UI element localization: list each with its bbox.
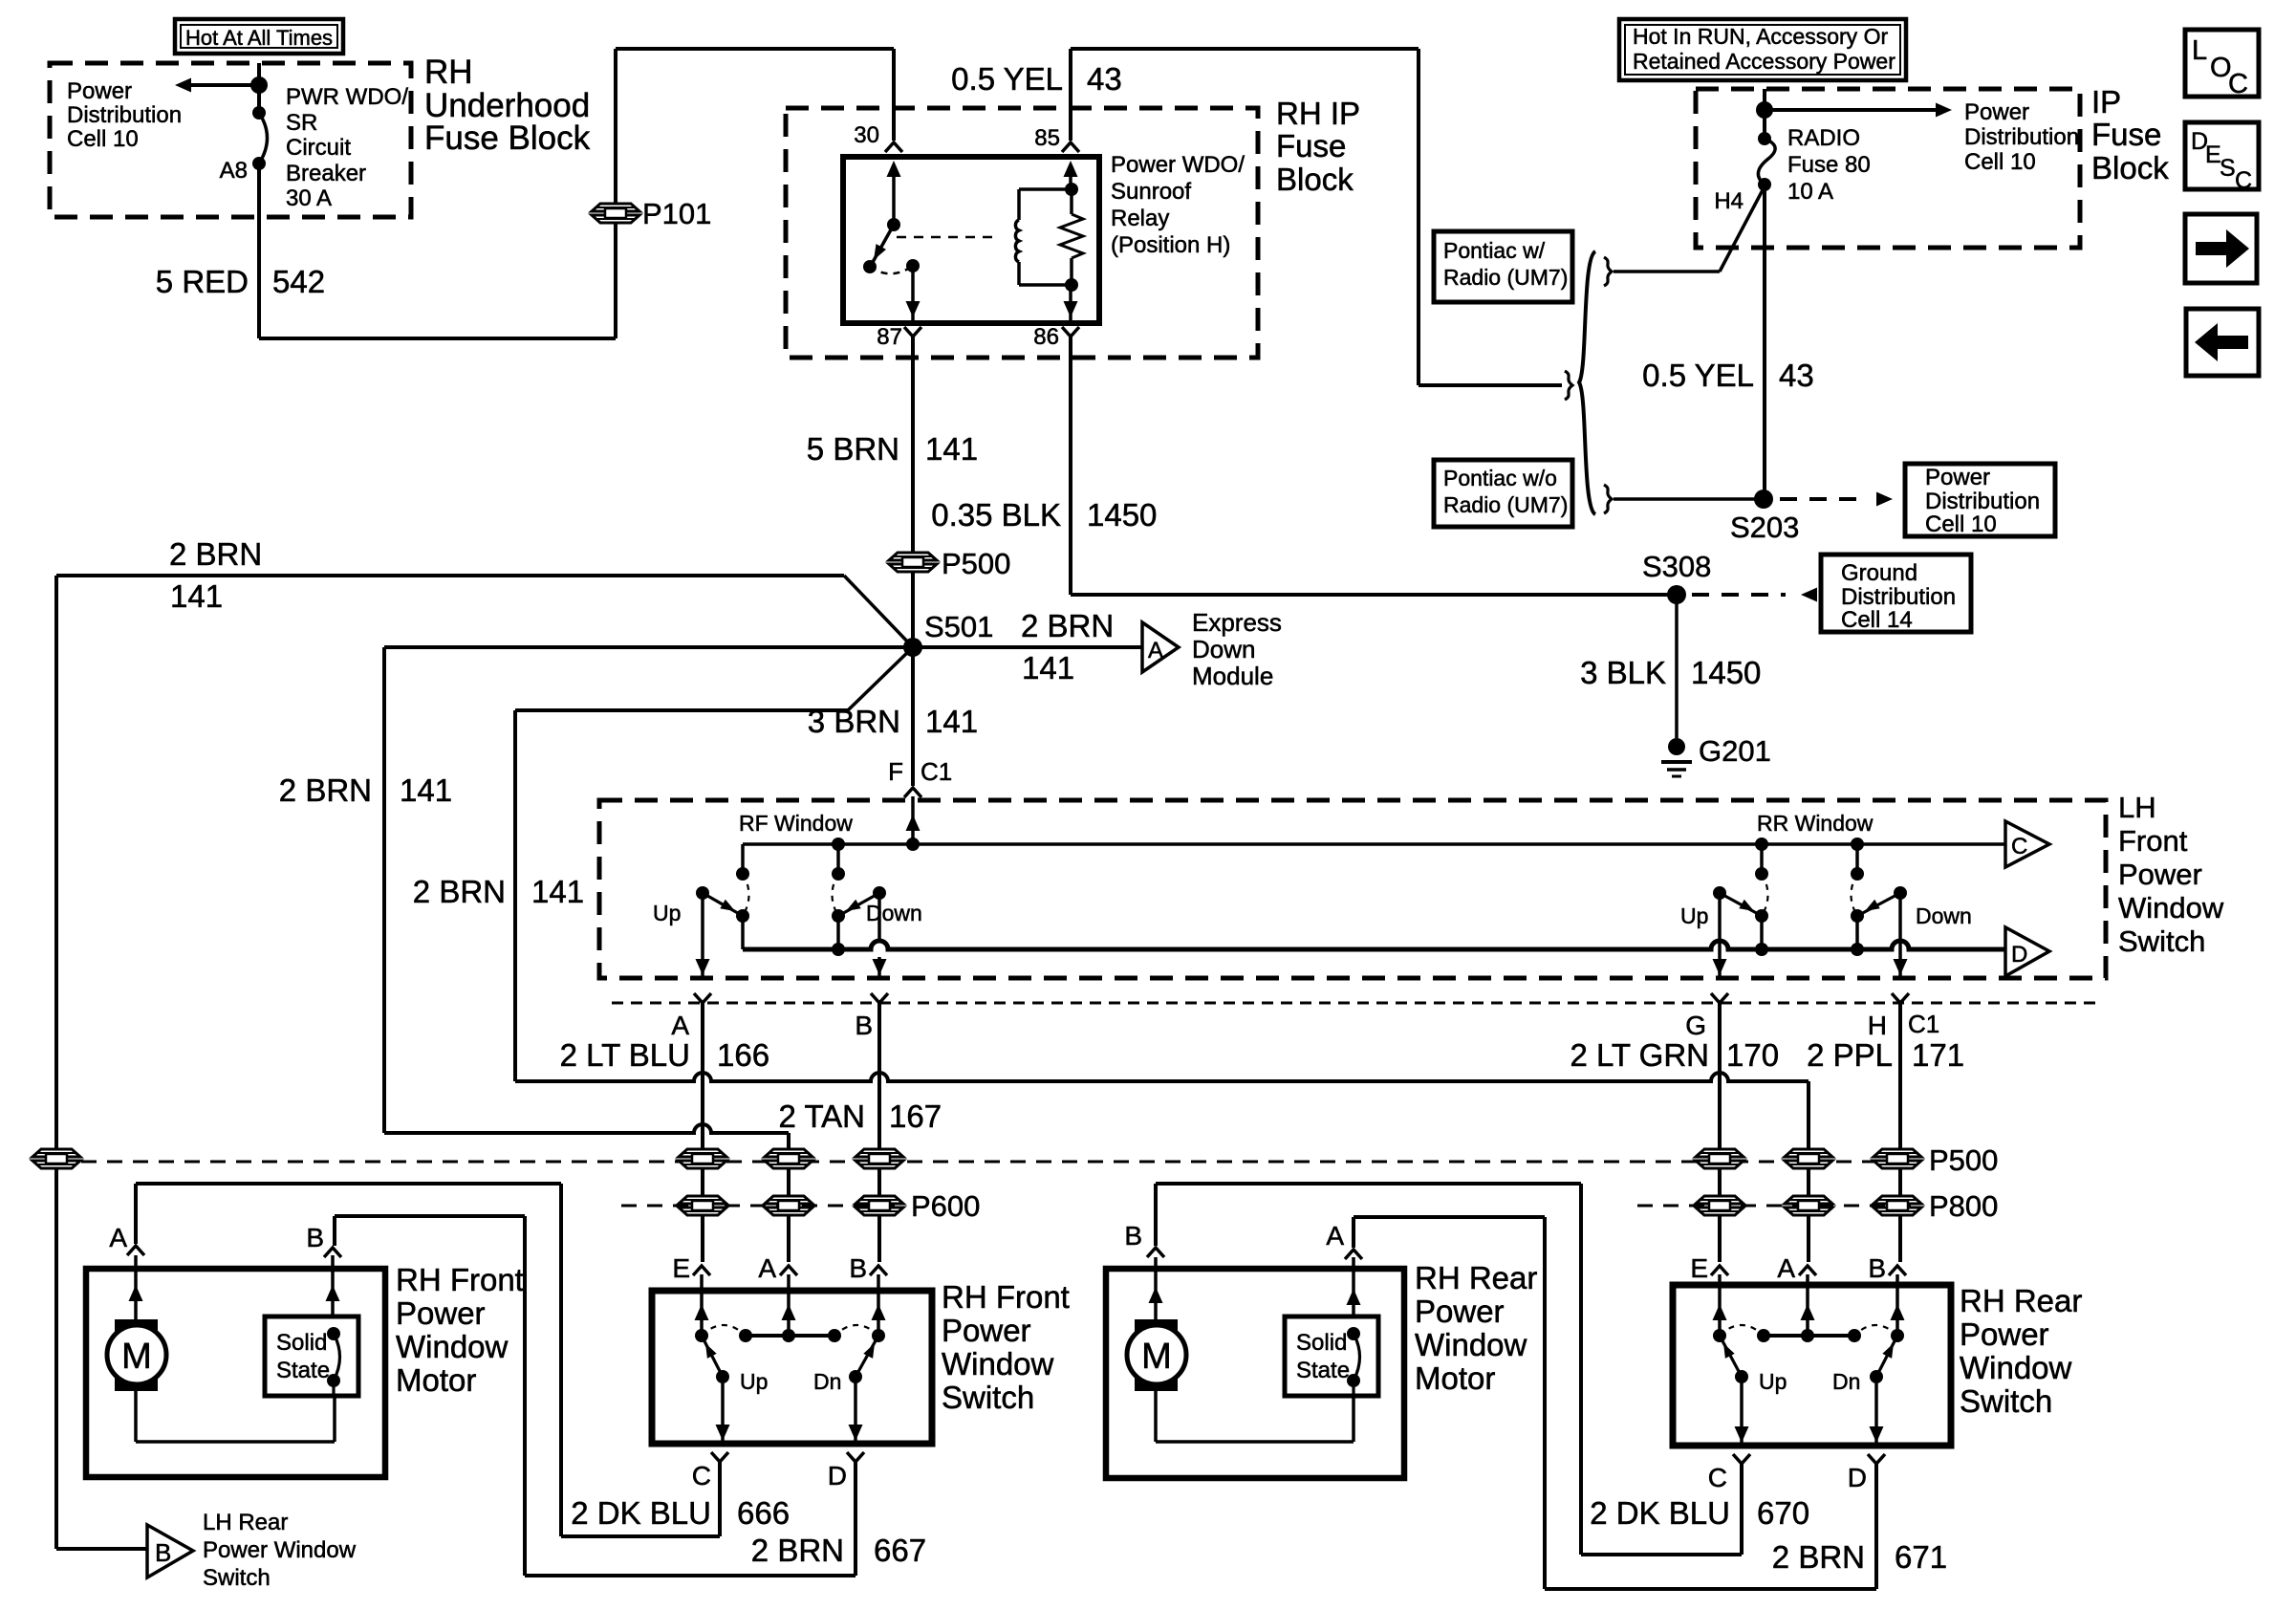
label: 2 BRN (671) — [1772, 1539, 1865, 1575]
svg-text:1450: 1450 — [1087, 497, 1157, 533]
connector P500 (rear A col) — [1785, 1149, 1832, 1168]
label: Down (RF) — [866, 901, 922, 925]
rear switch: E contact — [1713, 1329, 1726, 1342]
svg-text:LH: LH — [2118, 791, 2156, 824]
wire: 2 LT BLU 166 (pin A to front switch E) — [701, 1003, 704, 1262]
label: 167 — [889, 1099, 942, 1134]
label: Power WDO/Sunroof Relay (Position H) — [1111, 152, 1245, 258]
wire: 5 RED 542 — [259, 163, 616, 338]
label: RADIO Fuse 80 10 A — [1787, 125, 1871, 205]
svg-text:P800: P800 — [1929, 1189, 1998, 1223]
svg-text:Cell 10: Cell 10 — [1964, 149, 2036, 175]
connector P800 (rear B col) — [1874, 1196, 1921, 1215]
arrow: to Power Distribution Cell 10 — [175, 78, 259, 93]
svg-text:M: M — [1141, 1337, 1172, 1377]
RH Rear Power Window Motor box — [1106, 1269, 1404, 1478]
svg-text:Power Window: Power Window — [203, 1537, 357, 1563]
front switch: Dn arm — [849, 1336, 878, 1383]
svg-text:RH IP: RH IP — [1276, 96, 1360, 131]
wire: C1 F entry into switch — [906, 796, 921, 851]
label: 141 (3 BRN) — [925, 704, 978, 739]
svg-text:A: A — [671, 1011, 689, 1040]
svg-text:Switch: Switch — [942, 1380, 1034, 1415]
relay switched output to pin 87 — [906, 259, 921, 323]
svg-text:B: B — [306, 1223, 324, 1252]
dashed throw: RR up — [1762, 874, 1768, 916]
svg-text:2 BRN: 2 BRN — [751, 1533, 844, 1568]
splice S501 — [903, 610, 993, 657]
rear switch: Up arm — [1720, 1336, 1748, 1383]
svg-text:10 A: 10 A — [1787, 179, 1833, 205]
pin A (front motor) — [109, 1223, 144, 1255]
svg-text:670: 670 — [1757, 1495, 1809, 1531]
svg-text:G: G — [1685, 1011, 1706, 1040]
relay actuation dashed link — [897, 236, 998, 239]
svg-text:43: 43 — [1779, 358, 1814, 393]
front switch: B contact — [872, 1329, 885, 1342]
svg-text:S: S — [2220, 155, 2236, 182]
pin 85 — [1034, 125, 1079, 152]
connector P500 (front B col) — [856, 1149, 903, 1168]
svg-text:C: C — [692, 1461, 711, 1490]
svg-text:Power: Power — [942, 1313, 1031, 1348]
pin E (front switch) — [672, 1253, 710, 1283]
svg-text:Hot At All Times: Hot At All Times — [185, 26, 333, 50]
text: Power Distribution Cell 10 (IP) — [1964, 99, 2079, 175]
option box: Pontiac w/ Radio (UM7) — [1434, 231, 1572, 302]
pin A (rear switch) — [1777, 1253, 1816, 1283]
label: RH Rear Power Window Switch — [1960, 1283, 2082, 1419]
svg-text:0.35 BLK: 0.35 BLK — [931, 497, 1061, 533]
svg-text:Switch: Switch — [2118, 925, 2205, 958]
wire: RF Down output to pin B — [873, 893, 887, 978]
svg-text:2 DK BLU: 2 DK BLU — [1590, 1495, 1730, 1531]
label: 43 — [1087, 61, 1122, 97]
svg-text:141: 141 — [1022, 650, 1074, 685]
svg-text:86: 86 — [1033, 324, 1059, 350]
wire: 2 PPL 171 (pin H down) — [1898, 1003, 1902, 1262]
svg-text:Fuse: Fuse — [2091, 117, 2161, 152]
dashed arrow: S308 to Ground Distribution Cell 14 — [1692, 588, 1817, 602]
wire: option split feed — [1419, 49, 1562, 385]
relay switch arm — [863, 225, 894, 273]
pin C1 (bottom) — [1908, 1010, 1939, 1038]
power source label: Hot At All Times — [175, 19, 343, 54]
dashed arrow: S203 to Power Distribution Cell 10 — [1780, 492, 1893, 507]
option box: Pontiac w/o Radio (UM7) — [1434, 460, 1572, 527]
wire: 0.35 BLK 1450 (relay 86 to S308) — [1071, 337, 1677, 595]
relay switch dashed throw — [870, 266, 913, 273]
rear switch: contact bar — [1757, 1329, 1861, 1342]
label: 2 BRN (667) — [751, 1533, 844, 1568]
label: 141 (middle) — [400, 772, 452, 808]
svg-text:Up: Up — [1759, 1369, 1787, 1394]
svg-text:Window: Window — [396, 1329, 509, 1364]
node: junction above RADIO fuse — [1756, 101, 1773, 119]
front switch: B input arrow — [872, 1274, 886, 1336]
legend box: DESC — [2185, 122, 2259, 194]
front switch: E input arrow — [695, 1274, 709, 1336]
svg-text:D: D — [1848, 1463, 1867, 1492]
relay coil output to pin 86 — [1064, 278, 1079, 323]
svg-text:Power: Power — [1960, 1316, 2049, 1352]
wire: 0.5 YEL 43 (relay 85 feed) — [1071, 49, 1419, 141]
label: RH Front Power Window Motor — [396, 1262, 524, 1398]
rear switch: E input arrow — [1713, 1274, 1727, 1336]
svg-text:C: C — [2228, 69, 2248, 99]
switch: RF Down — [832, 886, 886, 949]
front switch: dashed throw E — [702, 1325, 746, 1336]
switch: RF Up — [696, 886, 749, 949]
pin 87 — [877, 324, 921, 350]
svg-text:171: 171 — [1912, 1037, 1964, 1073]
svg-text:87: 87 — [877, 324, 902, 350]
text: Power Distribution Cell 10 (underhood) — [67, 78, 182, 152]
pin B (front motor) — [306, 1223, 341, 1257]
svg-text:Express: Express — [1192, 608, 1282, 637]
node: RF down fixed stub — [832, 838, 845, 874]
label: 2 PPL — [1807, 1037, 1893, 1073]
label: 166 — [717, 1037, 769, 1073]
pin A (rear motor) — [1326, 1221, 1362, 1259]
svg-text:Window: Window — [2118, 891, 2224, 925]
connector P600 (front B col) — [856, 1196, 903, 1215]
label: 0.5 YEL (lower) — [1642, 358, 1754, 393]
svg-text:141: 141 — [531, 874, 584, 909]
svg-text:0.5 YEL: 0.5 YEL — [1642, 358, 1754, 393]
wire: 2 BRN 667 (front D to motor B) — [335, 1216, 856, 1576]
box: Ground Distribution Cell 14 — [1821, 555, 1971, 633]
label: 2 DK BLU (666) — [571, 1495, 711, 1531]
svg-text:S203: S203 — [1730, 511, 1799, 544]
svg-text:Up: Up — [653, 901, 681, 925]
front motor: solid state contact arc — [327, 1327, 340, 1387]
RH IP Fuse Block dashed box — [786, 108, 1258, 358]
svg-text:SR: SR — [286, 110, 317, 136]
svg-text:Distribution: Distribution — [1964, 124, 2079, 150]
svg-text:2 LT GRN: 2 LT GRN — [1570, 1037, 1710, 1073]
pin B (rear motor) — [1124, 1221, 1164, 1257]
dashed pass-through line: P600 — [621, 1205, 903, 1207]
svg-text:RH Rear: RH Rear — [1415, 1260, 1537, 1295]
svg-text:Cell 10: Cell 10 — [67, 126, 139, 152]
triangle C: to RR window motor — [2005, 821, 2049, 867]
svg-text:LH Rear: LH Rear — [203, 1510, 288, 1535]
label: LH Front Power Window Switch — [2118, 791, 2224, 958]
rail: switch bottom rail — [743, 941, 2005, 956]
label: 141 (5 BRN) — [925, 431, 978, 467]
svg-text:2 LT BLU: 2 LT BLU — [560, 1037, 690, 1073]
connector P500 (front A col) — [765, 1149, 812, 1168]
svg-text:Block: Block — [2091, 150, 2169, 185]
svg-text:141: 141 — [925, 704, 978, 739]
front switch: E contact — [695, 1329, 708, 1342]
rear switch: Dn arm — [1870, 1336, 1897, 1383]
svg-text:Switch: Switch — [203, 1565, 271, 1591]
svg-text:Power: Power — [1415, 1294, 1505, 1329]
svg-text:A: A — [109, 1223, 127, 1252]
connector P500 (front E col) — [679, 1149, 726, 1168]
svg-text:Switch: Switch — [1960, 1383, 2052, 1419]
svg-text:Front: Front — [2118, 824, 2188, 858]
label: 2 BRN (left rail) — [169, 536, 262, 572]
pin D (rear switch) — [1848, 1454, 1885, 1492]
svg-text:141: 141 — [400, 772, 452, 808]
contact: RR down fixed — [1851, 867, 1864, 881]
pin 86 — [1033, 324, 1079, 350]
svg-text:Power WDO/: Power WDO/ — [1111, 152, 1245, 178]
label: P500 (right) — [1929, 1143, 1998, 1177]
label: 2 LT BLU — [560, 1037, 690, 1073]
text: Express Down Module — [1192, 608, 1282, 690]
svg-text:H4: H4 — [1714, 188, 1744, 214]
front motor: A lead — [129, 1255, 143, 1319]
pin H4 — [1714, 188, 1744, 214]
label: 170 — [1726, 1037, 1779, 1073]
wire: fuse feed from hot bus — [1763, 89, 1766, 139]
node: RR down fixed stub — [1851, 838, 1864, 874]
svg-text:C: C — [1708, 1463, 1727, 1492]
RH Front Power Window Switch box — [652, 1291, 932, 1444]
svg-text:PWR WDO/: PWR WDO/ — [286, 84, 408, 110]
label: Dn (front switch) — [813, 1369, 841, 1394]
label: 171 — [1912, 1037, 1964, 1073]
label: P800 — [1929, 1189, 1998, 1223]
svg-text:2 BRN: 2 BRN — [1021, 608, 1114, 643]
svg-text:Breaker: Breaker — [286, 161, 366, 186]
pin E (rear switch) — [1690, 1253, 1728, 1283]
svg-text:RH Front: RH Front — [942, 1279, 1070, 1315]
svg-text:Cell 10: Cell 10 — [1925, 511, 1997, 537]
splice S308 — [1642, 550, 1711, 604]
label: RH Rear Power Window Motor — [1415, 1260, 1537, 1396]
svg-text:M: M — [121, 1337, 152, 1377]
wire: 2 BRN 671 (rear D to motor A) — [1354, 1217, 1876, 1589]
wire: 0.5 YEL 43 (fuse to S203) — [1763, 185, 1766, 499]
pin C (rear switch) — [1708, 1454, 1750, 1492]
svg-text:Solid: Solid — [276, 1330, 327, 1356]
relay coil — [1015, 220, 1019, 262]
label: 1450 (86 wire) — [1087, 497, 1157, 533]
svg-text:Sunroof: Sunroof — [1111, 179, 1191, 205]
fuse F80: RADIO Fuse 80 10 A — [1758, 132, 1775, 191]
pin A8 — [220, 158, 248, 184]
label: 141 (left rail) — [170, 578, 223, 614]
wire: top bus to relay pin 30 — [616, 49, 894, 141]
svg-text:Window: Window — [1415, 1327, 1527, 1362]
svg-text:Radio (UM7): Radio (UM7) — [1443, 492, 1568, 517]
svg-text:Power: Power — [1925, 465, 1990, 490]
connector face line C1 — [612, 1002, 2098, 1005]
relay box: Power WDO/Sunroof Relay — [843, 157, 1099, 323]
svg-text:5 BRN: 5 BRN — [807, 431, 899, 467]
wire: 5 BRN 141 (pin 87 to S501) — [911, 337, 915, 647]
svg-text:Solid: Solid — [1296, 1330, 1347, 1356]
splice S203 — [1730, 490, 1799, 544]
node: junction at breaker feed — [250, 76, 268, 94]
label: 2 BRN (middle) — [279, 772, 372, 808]
svg-text:Distribution: Distribution — [1925, 489, 2040, 514]
svg-text:IP: IP — [2091, 84, 2121, 120]
svg-text:P500: P500 — [1929, 1143, 1998, 1177]
rear switch: B input arrow — [1891, 1274, 1905, 1336]
motor M2: RH rear window motor — [1127, 1319, 1186, 1391]
svg-text:RH Rear: RH Rear — [1960, 1283, 2082, 1318]
svg-text:S501: S501 — [924, 610, 993, 643]
connector P600 (front A col) — [765, 1196, 812, 1215]
svg-text:C1: C1 — [921, 757, 952, 786]
svg-text:2 BRN: 2 BRN — [169, 536, 262, 572]
rear switch: B contact — [1891, 1329, 1904, 1342]
svg-text:RR Window: RR Window — [1757, 811, 1874, 836]
wire: riser to P101 — [614, 49, 617, 338]
svg-text:C1: C1 — [1908, 1010, 1939, 1038]
svg-text:Hot In RUN, Accessory Or: Hot In RUN, Accessory Or — [1633, 24, 1888, 49]
switch: RR Down — [1851, 886, 1907, 956]
brace: options group — [1579, 251, 1595, 514]
pin A (front switch) — [758, 1253, 797, 1283]
label: 670 — [1757, 1495, 1809, 1531]
svg-text:F: F — [888, 757, 903, 786]
svg-text:Block: Block — [1276, 162, 1354, 197]
motor M1: RH front window motor — [107, 1319, 166, 1391]
dashed throw: RR down — [1852, 874, 1858, 916]
label: RF Window — [739, 811, 853, 836]
svg-text:Retained Accessory Power: Retained Accessory Power — [1633, 49, 1895, 74]
relay coil branch wires — [1019, 189, 1072, 285]
svg-text:Up: Up — [740, 1369, 768, 1394]
relay resistor — [1060, 189, 1083, 285]
connector P800 (rear E col) — [1696, 1196, 1744, 1215]
pin 30 — [854, 122, 902, 152]
dashed pass-through line: P500 — [81, 1161, 1917, 1164]
contact: RF up fixed — [736, 867, 749, 881]
svg-text:2 BRN: 2 BRN — [279, 772, 372, 808]
svg-text:D: D — [2011, 942, 2027, 968]
svg-text:2 PPL: 2 PPL — [1807, 1037, 1893, 1073]
svg-text:Power: Power — [396, 1295, 486, 1331]
front switch: contact bar — [739, 1329, 841, 1342]
label: 0.5 YEL — [951, 61, 1063, 97]
svg-text:667: 667 — [874, 1533, 926, 1568]
svg-text:A8: A8 — [220, 158, 248, 184]
connector chevron: F/C1 — [904, 788, 921, 797]
svg-text:Fuse: Fuse — [1276, 128, 1346, 163]
brace: split feed end — [1565, 371, 1572, 400]
svg-text:A: A — [1326, 1221, 1344, 1251]
label: Up (front switch) — [740, 1369, 768, 1394]
svg-text:Pontiac w/o: Pontiac w/o — [1443, 466, 1557, 490]
label: 5 RED — [156, 264, 249, 299]
svg-text:3 BRN: 3 BRN — [808, 704, 900, 739]
svg-text:3 BLK: 3 BLK — [1580, 655, 1666, 690]
svg-text:P500: P500 — [942, 547, 1010, 580]
wire: 2 BRN 141 to left rail — [56, 576, 913, 647]
label: 1450 (G201) — [1691, 655, 1761, 690]
svg-text:A: A — [1148, 638, 1163, 664]
label: 666 — [737, 1495, 790, 1531]
pin B (front switch) — [849, 1253, 887, 1283]
pin G — [1685, 993, 1728, 1040]
RH Front Power Window Motor box — [86, 1269, 385, 1477]
svg-text:E: E — [1690, 1253, 1708, 1283]
svg-text:State: State — [1296, 1358, 1350, 1383]
pin B (LH switch) — [855, 993, 888, 1040]
label: Up (RR) — [1680, 903, 1708, 928]
svg-text:43: 43 — [1087, 61, 1122, 97]
svg-text:(Position H): (Position H) — [1111, 232, 1230, 258]
svg-text:Down: Down — [1916, 903, 1972, 928]
svg-text:Cell 14: Cell 14 — [1841, 607, 1913, 633]
label: 2 BRN (lower) — [413, 874, 506, 909]
label: 671 — [1895, 1539, 1947, 1575]
svg-text:30 A: 30 A — [286, 185, 332, 211]
rear switch: dashed throw B — [1854, 1325, 1897, 1336]
wire: feed to rear switch A — [515, 1073, 1809, 1262]
label: 141 (express) — [1022, 650, 1074, 685]
RH Underhood Fuse Block dashed box — [50, 63, 411, 217]
triangle D: to RR window motor — [2005, 927, 2049, 976]
svg-text:A: A — [758, 1253, 776, 1283]
label: PWR WDO/SR Circuit Breaker 30 A — [286, 84, 408, 211]
rear switch: dashed throw E — [1720, 1325, 1764, 1336]
svg-text:Radio (UM7): Radio (UM7) — [1443, 265, 1568, 290]
label: Up (RF) — [653, 901, 681, 925]
label: 542 — [272, 264, 325, 299]
svg-text:S308: S308 — [1642, 550, 1711, 583]
wire: left rail down to LH rear switch — [54, 576, 58, 1549]
connector P500 (87 wire) — [889, 547, 1010, 580]
label: 3 BRN — [808, 704, 900, 739]
rear motor: solid state contact arc — [1347, 1327, 1360, 1387]
legend box: next arrow — [2185, 214, 2257, 283]
box: Power Distribution Cell 10 (cell ref) — [1905, 464, 2055, 537]
front switch: D output — [849, 1377, 863, 1444]
label: Up (rear switch) — [1759, 1369, 1787, 1394]
rear switch: D output — [1870, 1377, 1884, 1446]
wire: RR Down output to pin H — [1894, 893, 1908, 978]
svg-text:RH: RH — [424, 54, 473, 91]
wire: 2 DK BLU 670 (rear C to motor B) — [1156, 1184, 1742, 1555]
legend box: LOC — [2185, 30, 2259, 99]
label: 3 BLK — [1580, 655, 1666, 690]
svg-text:A: A — [1777, 1253, 1795, 1283]
svg-text:85: 85 — [1034, 125, 1060, 151]
connector P500 (rear B col) — [1874, 1149, 1921, 1168]
wire: 2 BRN 141 (lower branch to rear switch A) — [515, 647, 913, 1081]
dashed throw: RF up — [743, 874, 749, 916]
svg-text:5 RED: 5 RED — [156, 264, 249, 299]
front motor: B lead — [326, 1255, 340, 1316]
svg-text:H: H — [1868, 1011, 1887, 1040]
wire: Pontiac w/ Radio branch to fuse H4 — [1604, 186, 1765, 286]
wire: feed to front switch A — [384, 1124, 789, 1262]
svg-text:D: D — [828, 1461, 847, 1490]
front switch: A input arrow — [782, 1274, 796, 1336]
label: 43 (lower) — [1779, 358, 1814, 393]
svg-text:542: 542 — [272, 264, 325, 299]
wire: 2 LT GRN 170 (pin G down) — [1718, 1003, 1722, 1262]
svg-text:Distribution: Distribution — [67, 102, 182, 128]
dashed pass-through line: P800 — [1637, 1205, 1917, 1207]
dashed throw: RF down — [833, 874, 839, 916]
svg-text:Window: Window — [942, 1346, 1054, 1382]
label: IP Fuse Block — [2091, 84, 2169, 185]
wire: hot feed into circuit breaker — [257, 63, 261, 115]
svg-text:Power: Power — [1964, 99, 2029, 125]
wire: 3 BLK 1450 — [1675, 595, 1679, 738]
svg-text:Distribution: Distribution — [1841, 584, 1956, 610]
